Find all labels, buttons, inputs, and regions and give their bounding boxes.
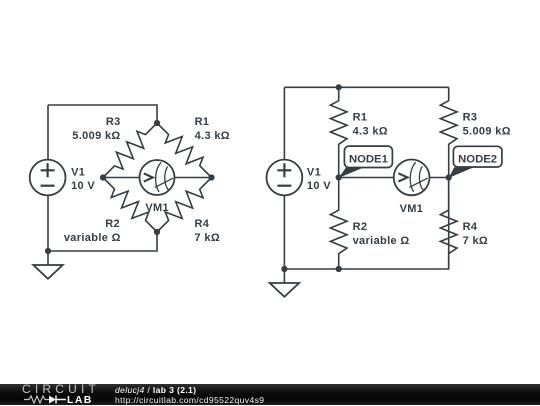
footer url: [115, 395, 264, 405]
node bridge left: [100, 174, 106, 180]
node right bottom left: [281, 266, 287, 272]
wire V1 top lead: [47, 105, 49, 160]
svg-text:VM1: VM1: [145, 202, 169, 214]
node bridge bottom: [154, 229, 160, 235]
node NODE1 flag: [339, 146, 393, 178]
svg-text:5.009 kΩ: 5.009 kΩ: [72, 130, 120, 142]
node bridge right: [208, 174, 214, 180]
resistor R4: [157, 178, 212, 233]
resistor R1: [157, 123, 212, 178]
resistor R2 (right circuit): [330, 178, 347, 270]
wire left circuit top: [48, 105, 157, 123]
svg-text:variable Ω: variable Ω: [353, 235, 410, 247]
resistor R3 (right circuit): [440, 87, 457, 177]
CircuitLab logo CIRCUIT: [22, 382, 100, 396]
voltmeter VM1 (left): [140, 160, 175, 195]
svg-text:variable Ω: variable Ω: [64, 232, 121, 244]
node NODE2 flag: [449, 146, 502, 178]
wire left circuit bottom: [48, 232, 157, 251]
wire right circuit top rail: [284, 86, 448, 88]
wire VM1 right-circuit left lead: [339, 177, 394, 179]
svg-text:R4: R4: [463, 221, 478, 233]
svg-text:R3: R3: [106, 116, 121, 128]
wire VM1 left lead: [103, 177, 140, 179]
svg-text:5.009 kΩ: 5.009 kΩ: [463, 125, 511, 137]
node NODE2 junction: [446, 174, 452, 180]
logo resistor: [24, 396, 49, 403]
voltage source V1: [30, 160, 66, 196]
svg-text:10 V: 10 V: [307, 180, 331, 192]
wire right circuit bottom rail: [284, 178, 448, 270]
wire V1 bottom lead: [47, 195, 49, 251]
svg-text:R3: R3: [463, 112, 478, 124]
resistor R4 (right circuit): [440, 178, 457, 270]
node left bottom corner: [45, 248, 51, 254]
svg-text:VM1: VM1: [400, 203, 424, 215]
ground right: [270, 269, 299, 297]
svg-text:4.3 kΩ: 4.3 kΩ: [195, 130, 230, 142]
svg-text:V1: V1: [307, 167, 321, 179]
svg-text:R2: R2: [105, 218, 120, 230]
wire VM1 right-circuit right lead: [430, 177, 449, 179]
wire V1 right bottom lead: [283, 195, 285, 269]
svg-text:R1: R1: [195, 116, 210, 128]
svg-text:V1: V1: [71, 166, 85, 178]
logo diode: [49, 396, 56, 404]
svg-text:R2: R2: [353, 221, 368, 233]
footer bar: [0, 384, 540, 405]
resistor R3: [103, 123, 157, 178]
svg-text:R1: R1: [353, 112, 368, 124]
logo LAB text: [67, 394, 93, 406]
resistor R2: [103, 178, 157, 233]
node right top junction: [336, 84, 342, 90]
node right bottom mid: [336, 266, 342, 272]
wire VM1 right lead: [174, 177, 211, 179]
svg-text:7 kΩ: 7 kΩ: [195, 232, 221, 244]
wire V1 right top lead: [283, 87, 285, 159]
svg-text:10 V: 10 V: [71, 180, 95, 192]
svg-text:R4: R4: [195, 218, 210, 230]
node bridge top: [154, 120, 160, 126]
ground left: [33, 251, 62, 279]
resistor R1 (right circuit): [330, 87, 347, 177]
voltage source V1 (right): [267, 160, 303, 196]
svg-text:7 kΩ: 7 kΩ: [463, 235, 489, 247]
svg-text:NODE2: NODE2: [458, 153, 497, 165]
voltmeter VM1 (right): [394, 160, 430, 196]
node NODE1 junction: [336, 174, 342, 180]
svg-text:NODE1: NODE1: [349, 153, 388, 165]
footer title: [115, 385, 196, 395]
svg-text:4.3 kΩ: 4.3 kΩ: [353, 125, 388, 137]
